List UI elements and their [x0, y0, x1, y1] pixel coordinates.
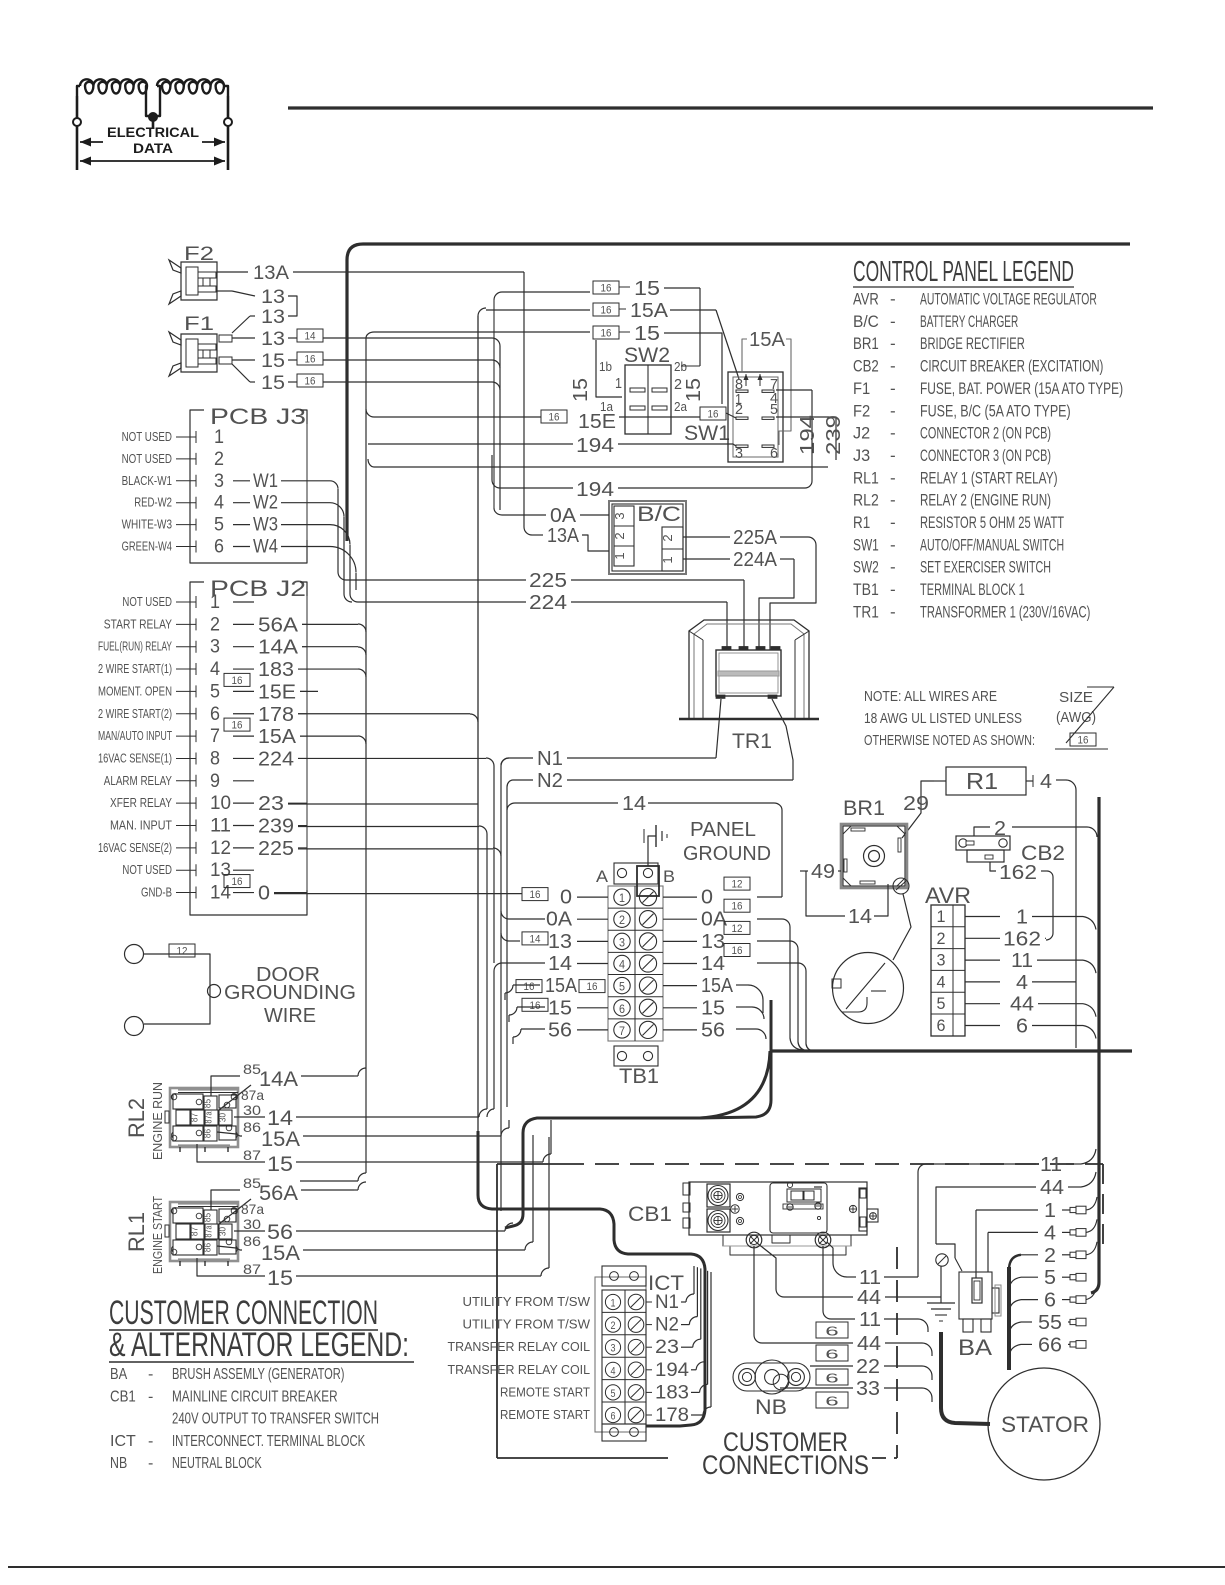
switch SW2 [570, 340, 700, 434]
TB1 left wire 0 [522, 887, 608, 909]
wire 194 vertical at SW1 pin7 [776, 390, 812, 488]
harness to stator [941, 1332, 990, 1424]
svg-text:0A: 0A [546, 909, 573, 931]
TB1 right wire 15A [663, 975, 734, 997]
ICT terminal 4 194 [448, 1270, 705, 1381]
svg-text:12: 12 [732, 879, 743, 891]
svg-text:RL1: RL1 [853, 468, 879, 487]
wire 225 to TR1 [346, 570, 744, 649]
RL1 wire hooks [354, 1135, 549, 1276]
AVR wire 1 [965, 907, 1096, 930]
svg-text:MAN/AUTO INPUT: MAN/AUTO INPUT [98, 729, 172, 743]
svg-text:1: 1 [1044, 1200, 1056, 1222]
svg-text:14: 14 [305, 331, 316, 343]
customer legend [109, 1294, 414, 1472]
svg-text:-: - [890, 513, 896, 532]
wire 183 run [298, 669, 366, 677]
connector PCB J2 [190, 576, 307, 915]
svg-text:87: 87 [190, 1113, 200, 1122]
svg-text:1: 1 [214, 427, 224, 448]
circuit breaker CB1 [628, 1182, 878, 1255]
circuit breaker CB2 [956, 836, 1065, 865]
svg-text:NB: NB [755, 1396, 787, 1419]
svg-text:CONTROL PANEL LEGEND: CONTROL PANEL LEGEND [853, 256, 1074, 288]
svg-text:18 AWG UL LISTED UNLESS: 18 AWG UL LISTED UNLESS [864, 710, 1022, 727]
wire 162 at CB2 [990, 862, 1053, 940]
svg-text:0: 0 [701, 887, 713, 909]
svg-text:56: 56 [548, 1019, 572, 1041]
wire 194 mid [492, 455, 805, 501]
svg-text:14: 14 [267, 1107, 293, 1130]
wire 22 [810, 1356, 932, 1386]
svg-text:1: 1 [611, 1298, 616, 1310]
stator lead 1 [976, 1197, 1097, 1278]
stator lead 5 [1009, 1267, 1086, 1291]
svg-text:15A: 15A [630, 300, 669, 322]
svg-text:29: 29 [903, 793, 929, 815]
wire 15 vertical label [683, 378, 705, 402]
svg-text:14: 14 [622, 793, 646, 815]
TB1 terminal 5 15A [614, 977, 657, 994]
svg-text:2: 2 [1044, 1245, 1056, 1267]
svg-text:B/C: B/C [853, 312, 879, 331]
stator lead bundle [1007, 1267, 1011, 1370]
svg-text:16: 16 [524, 981, 535, 993]
TB1 left feeders [487, 911, 545, 1117]
svg-text:5: 5 [214, 515, 224, 536]
svg-text:15: 15 [267, 1153, 293, 1176]
J2 pin 14 GND-B [141, 875, 307, 905]
svg-text:INTERCONNECT. TERMINAL BLOCK: INTERCONNECT. TERMINAL BLOCK [172, 1433, 365, 1450]
svg-text:15: 15 [634, 278, 660, 300]
wire 15A row2 [478, 300, 739, 379]
svg-text:XFER RELAY: XFER RELAY [110, 796, 173, 810]
svg-text:15E: 15E [578, 411, 616, 433]
svg-text:4: 4 [1044, 1222, 1056, 1244]
AVR wire 6 [965, 1016, 1096, 1039]
svg-text:MOMENT. OPEN: MOMENT. OPEN [98, 684, 172, 698]
svg-text:56A: 56A [259, 1182, 298, 1205]
svg-text:BR1: BR1 [853, 334, 879, 353]
svg-text:6: 6 [619, 1002, 625, 1016]
svg-text:-: - [890, 379, 896, 398]
svg-text:ALARM RELAY: ALARM RELAY [104, 774, 173, 788]
svg-text:194: 194 [576, 479, 614, 501]
TB1 left wire 15A [516, 975, 605, 997]
wire 239 run [298, 826, 487, 1109]
svg-text:BA: BA [958, 1335, 992, 1360]
svg-text:16: 16 [601, 283, 612, 295]
svg-text:2: 2 [660, 534, 675, 541]
TB1 right wire 0A [663, 899, 750, 931]
svg-text:CONNECTOR 2 (ON PCB): CONNECTOR 2 (ON PCB) [920, 424, 1051, 443]
svg-text:178: 178 [258, 704, 294, 726]
svg-text:11: 11 [1040, 1154, 1062, 1176]
wire 15A run [300, 736, 366, 744]
relay RL2 [124, 1082, 238, 1160]
svg-text:15: 15 [701, 997, 725, 1019]
svg-text:BLACK-W1: BLACK-W1 [122, 474, 172, 488]
svg-text:14: 14 [210, 883, 231, 904]
svg-text:SW2: SW2 [853, 558, 879, 577]
svg-text:22: 22 [856, 1356, 880, 1378]
svg-text:AUTOMATIC VOLTAGE REGULATOR: AUTOMATIC VOLTAGE REGULATOR [920, 290, 1097, 309]
svg-text:AUTO/OFF/MANUAL SWITCH: AUTO/OFF/MANUAL SWITCH [920, 535, 1064, 554]
svg-text:ELECTRICAL: ELECTRICAL [107, 125, 199, 140]
AVR wire 4 [965, 972, 1076, 994]
svg-text:WHITE-W3: WHITE-W3 [122, 518, 172, 532]
svg-text:224A: 224A [733, 549, 778, 571]
svg-text:1: 1 [660, 556, 675, 563]
svg-text:13: 13 [701, 931, 725, 953]
electrical data logo [73, 79, 232, 170]
svg-text:NOT USED: NOT USED [122, 863, 172, 877]
RL1 wire 86 15A [217, 1233, 354, 1265]
svg-text:3: 3 [210, 637, 220, 658]
svg-text:-: - [890, 446, 896, 465]
wire 33 [780, 1378, 932, 1409]
svg-text:4: 4 [1016, 972, 1028, 994]
svg-text:6: 6 [214, 537, 224, 558]
svg-text:N2: N2 [537, 770, 563, 792]
svg-text:-: - [890, 334, 896, 353]
svg-text:15: 15 [261, 373, 285, 394]
svg-text:86: 86 [203, 1243, 213, 1252]
svg-text:W1: W1 [253, 471, 278, 492]
svg-text:15A: 15A [749, 329, 786, 351]
wire 14 at BR1 [848, 884, 888, 928]
svg-text:30: 30 [218, 1113, 228, 1122]
stator lead 2 [1009, 1242, 1097, 1270]
svg-text:225A: 225A [733, 527, 778, 549]
svg-text:6: 6 [825, 1371, 838, 1386]
svg-text:UTILITY FROM T/SW: UTILITY FROM T/SW [463, 1295, 591, 1309]
svg-text:5: 5 [619, 980, 625, 994]
svg-text:GREEN-W4: GREEN-W4 [122, 540, 172, 554]
svg-text:1: 1 [612, 552, 627, 559]
svg-text:AVR: AVR [925, 883, 971, 908]
svg-text:16: 16 [232, 876, 243, 888]
svg-text:BA: BA [110, 1366, 127, 1383]
svg-text:86: 86 [243, 1119, 261, 1135]
svg-text:PCB J2: PCB J2 [210, 576, 306, 601]
svg-text:194: 194 [655, 1360, 689, 1381]
svg-text:-: - [890, 535, 896, 554]
TB1 left wire 14 [548, 953, 608, 975]
harness bus top [347, 244, 1130, 541]
fuse F2 [169, 244, 217, 304]
svg-text:9: 9 [210, 771, 220, 792]
svg-text:CIRCUIT BREAKER (EXCITATION): CIRCUIT BREAKER (EXCITATION) [920, 357, 1103, 376]
TB1 left wire 0A [546, 909, 608, 931]
svg-text:56: 56 [701, 1019, 725, 1041]
svg-text:CONNECTIONS: CONNECTIONS [702, 1450, 869, 1480]
svg-text:12: 12 [210, 838, 231, 859]
svg-text:F2: F2 [853, 401, 870, 420]
relay RL1 [124, 1196, 238, 1274]
interconnect terminal block ICT [595, 1266, 684, 1441]
J2 pin 2 START RELAY [104, 614, 307, 636]
ICT terminal 1 N1 [463, 1266, 695, 1313]
svg-text:86: 86 [203, 1129, 213, 1138]
svg-text:RESISTOR 5 OHM 25 WATT: RESISTOR 5 OHM 25 WATT [920, 513, 1064, 532]
svg-text:14: 14 [548, 953, 572, 975]
svg-text:4: 4 [210, 659, 220, 680]
svg-text:66: 66 [1038, 1334, 1062, 1356]
TB1 right wire 13 [663, 921, 750, 953]
svg-text:6: 6 [1044, 1290, 1056, 1312]
svg-text:4: 4 [937, 972, 946, 991]
J2 pin 12 16VAC SENSE(2) [98, 838, 307, 860]
svg-text:178: 178 [655, 1405, 689, 1426]
fuse F1 [169, 314, 232, 376]
J2 pin 1 NOT USED [122, 592, 254, 613]
svg-text:RL2: RL2 [124, 1098, 149, 1138]
svg-text:0: 0 [560, 887, 572, 909]
svg-text:5: 5 [770, 401, 778, 418]
svg-text:NOT USED: NOT USED [122, 430, 172, 444]
svg-text:BATTERY CHARGER: BATTERY CHARGER [920, 312, 1018, 331]
J2 pin 3 FUEL(RUN) RELAY [98, 637, 307, 659]
svg-text:CB1: CB1 [628, 1203, 672, 1226]
svg-text:GROUNDING: GROUNDING [224, 982, 356, 1004]
svg-text:N2: N2 [655, 1315, 679, 1336]
harness thick collector [505, 1000, 813, 1228]
svg-text:2 WIRE START(2): 2 WIRE START(2) [98, 707, 172, 721]
svg-text:1: 1 [210, 592, 220, 613]
wire W3 drop [330, 525, 358, 602]
stator lead 55 [1009, 1312, 1086, 1336]
RL2 wire 87a [219, 1085, 264, 1110]
svg-text:1a: 1a [600, 399, 614, 414]
svg-text:W2: W2 [253, 493, 278, 514]
wire 16 box at SW1 pin2 [700, 333, 736, 421]
svg-text:2: 2 [611, 1320, 616, 1332]
TB1 right wire 0 [663, 877, 750, 909]
svg-text:16VAC SENSE(1): 16VAC SENSE(1) [98, 751, 172, 765]
svg-text:-: - [890, 290, 896, 309]
svg-text:W4: W4 [253, 537, 278, 558]
svg-text:15A: 15A [701, 975, 734, 997]
wire 239 to SW1 pin5 [368, 417, 836, 467]
svg-text:0: 0 [258, 883, 270, 905]
J2 pin 13 NOT USED [122, 860, 254, 881]
svg-text:4: 4 [619, 958, 625, 972]
svg-text:6: 6 [611, 1411, 616, 1423]
RL2 wire 87 15 [197, 1144, 354, 1176]
svg-text:2: 2 [735, 401, 743, 418]
svg-text:15: 15 [267, 1267, 293, 1290]
svg-text:WIRE: WIRE [264, 1005, 316, 1027]
svg-text:14: 14 [530, 933, 541, 945]
wire 13A to B/C [524, 272, 609, 551]
AVR wire 44 [965, 994, 1096, 1017]
svg-text:3: 3 [735, 445, 743, 462]
wire 15 row1 [494, 278, 700, 366]
BR1 output node [893, 878, 911, 960]
wire 224A [683, 549, 794, 650]
wire 15 row3 [366, 323, 700, 345]
voltage regulator AVR [925, 883, 971, 1036]
svg-text:183: 183 [655, 1382, 689, 1403]
svg-text:14A: 14A [259, 1068, 298, 1091]
J3 pin 6 GREEN-W4 [122, 537, 330, 558]
size AWG flag [1055, 687, 1114, 749]
svg-text:N1: N1 [537, 748, 563, 770]
TB1 terminal 7 56 [614, 1021, 657, 1038]
svg-text:16VAC SENSE(2): 16VAC SENSE(2) [98, 841, 172, 855]
svg-text:-: - [890, 401, 896, 420]
svg-text:87a: 87a [204, 1226, 214, 1238]
svg-text:-: - [890, 580, 896, 599]
svg-text:4: 4 [214, 493, 224, 514]
svg-text:87: 87 [190, 1227, 200, 1236]
stator [988, 1368, 1100, 1480]
ICT terminal 3 23 [448, 1268, 701, 1358]
harness vertical 366 [300, 338, 366, 1181]
svg-text:86: 86 [243, 1233, 261, 1249]
svg-text:30: 30 [243, 1102, 261, 1118]
svg-text:87a: 87a [241, 1201, 264, 1217]
svg-text:TR1: TR1 [853, 602, 879, 621]
wire 11 gauge 6 [816, 1246, 928, 1339]
svg-text:2 WIRE START(1): 2 WIRE START(1) [98, 662, 172, 676]
svg-text:44: 44 [857, 1333, 881, 1355]
svg-text:1b: 1b [599, 359, 612, 374]
svg-text:UTILITY FROM T/SW: UTILITY FROM T/SW [463, 1318, 591, 1332]
wire 225A [683, 527, 816, 650]
svg-text:GROUND: GROUND [683, 843, 771, 865]
wire N2 [513, 770, 793, 792]
J2 pin 10 XFER RELAY [110, 793, 307, 815]
svg-text:GND-B: GND-B [141, 886, 172, 900]
svg-text:PCB J3: PCB J3 [210, 404, 306, 429]
svg-text:15A: 15A [261, 1242, 300, 1265]
stator lead 66 [1009, 1334, 1086, 1358]
svg-text:TRANSFORMER 1 (230V/16VAC): TRANSFORMER 1 (230V/16VAC) [920, 602, 1090, 621]
RL1 wire 30 56 [234, 1216, 354, 1244]
svg-text:RELAY 1 (START RELAY): RELAY 1 (START RELAY) [920, 468, 1058, 487]
svg-text:J3: J3 [853, 446, 870, 465]
wire W1 drop [330, 481, 346, 580]
svg-text:TERMINAL BLOCK 1: TERMINAL BLOCK 1 [920, 580, 1025, 599]
svg-text:OTHERWISE NOTED AS SHOWN:: OTHERWISE NOTED AS SHOWN: [864, 732, 1035, 749]
svg-text:TRANSFER RELAY COIL: TRANSFER RELAY COIL [448, 1363, 591, 1377]
svg-text:3: 3 [612, 512, 627, 519]
svg-text:240V OUTPUT TO TRANSFER SWITCH: 240V OUTPUT TO TRANSFER SWITCH [172, 1411, 379, 1428]
svg-text:W3: W3 [253, 515, 278, 536]
svg-text:239: 239 [823, 415, 845, 455]
svg-text:15: 15 [548, 997, 572, 1019]
svg-text:10: 10 [210, 793, 231, 814]
exciter rotor symbol [832, 953, 904, 1024]
svg-text:PANEL: PANEL [690, 819, 756, 841]
svg-text:16: 16 [530, 889, 541, 901]
svg-text:F1: F1 [853, 379, 870, 398]
svg-text:RELAY 2 (ENGINE RUN): RELAY 2 (ENGINE RUN) [920, 491, 1051, 510]
svg-text:R1: R1 [853, 513, 870, 532]
AVR wire 11 [965, 950, 1096, 973]
wire 178 run [298, 714, 478, 722]
RL1 wire 87a [219, 1199, 264, 1224]
wire 23 run [288, 803, 478, 805]
svg-text:1: 1 [615, 375, 622, 392]
svg-text:8: 8 [210, 748, 220, 769]
svg-text:16: 16 [232, 720, 243, 732]
svg-text:15: 15 [634, 323, 660, 345]
wire 44 from CB1 left screw [757, 1172, 1096, 1309]
svg-text:12: 12 [177, 946, 188, 958]
TB1 left wire 15 [522, 997, 608, 1019]
svg-text:-: - [890, 602, 896, 621]
svg-text:-: - [148, 1455, 153, 1472]
terminal block TB1 [596, 863, 675, 1088]
svg-text:85: 85 [203, 1099, 213, 1108]
wire N1 [501, 748, 716, 770]
svg-text:16: 16 [708, 409, 719, 421]
svg-text:11: 11 [859, 1267, 881, 1289]
wire 13 from F2 [217, 287, 297, 316]
svg-text:56: 56 [267, 1221, 293, 1244]
svg-text:N1: N1 [655, 1292, 679, 1313]
harness vertical 507 [507, 780, 513, 1107]
svg-text:13: 13 [261, 329, 285, 350]
svg-text:REMOTE START: REMOTE START [500, 1385, 590, 1399]
svg-text:194: 194 [797, 415, 819, 455]
svg-text:30: 30 [243, 1216, 261, 1232]
svg-text:6: 6 [937, 1016, 946, 1035]
J2 pin 6 2 WIRE START(2) [98, 704, 307, 726]
brush assembly BA [958, 1272, 1001, 1360]
J3 pin 3 BLACK-W1 [122, 471, 330, 492]
svg-text:3: 3 [611, 1343, 616, 1355]
svg-text:FUSE, B/C (5A ATO TYPE): FUSE, B/C (5A ATO TYPE) [920, 401, 1071, 420]
svg-text:44: 44 [1010, 994, 1034, 1016]
svg-text:225: 225 [258, 838, 294, 860]
svg-text:13: 13 [261, 287, 285, 308]
svg-text:224: 224 [258, 748, 294, 770]
neutral block NB [733, 1360, 810, 1419]
svg-text:START RELAY: START RELAY [104, 617, 173, 631]
svg-text:-: - [890, 424, 896, 443]
svg-text:55: 55 [1038, 1312, 1062, 1334]
wire 13 jumper to F1 [232, 307, 285, 333]
svg-text:SW1: SW1 [853, 535, 879, 554]
svg-text:11: 11 [1011, 950, 1033, 972]
control panel legend [853, 256, 1123, 621]
svg-text:162: 162 [999, 862, 1037, 884]
svg-text:6: 6 [825, 1394, 838, 1409]
svg-text:33: 33 [856, 1378, 880, 1400]
svg-text:-: - [890, 491, 896, 510]
svg-text:CB1: CB1 [110, 1388, 136, 1405]
svg-text:13A: 13A [253, 263, 289, 284]
svg-text:-: - [148, 1388, 153, 1405]
svg-text:13: 13 [210, 860, 231, 881]
svg-text:5: 5 [611, 1388, 616, 1400]
svg-text:3: 3 [937, 951, 946, 970]
svg-text:225: 225 [529, 570, 567, 592]
svg-text:194: 194 [576, 435, 614, 457]
svg-text:2: 2 [612, 532, 627, 539]
svg-text:(AWG): (AWG) [1056, 709, 1096, 726]
svg-text:SIZE: SIZE [1059, 689, 1093, 706]
svg-text:BRUSH ASSEMLY (GENERATOR): BRUSH ASSEMLY (GENERATOR) [172, 1366, 345, 1383]
svg-text:TRANSFER RELAY COIL: TRANSFER RELAY COIL [448, 1340, 591, 1354]
svg-text:16: 16 [305, 354, 316, 366]
TB1 right wire 14 [663, 944, 750, 976]
svg-text:56A: 56A [258, 614, 299, 636]
